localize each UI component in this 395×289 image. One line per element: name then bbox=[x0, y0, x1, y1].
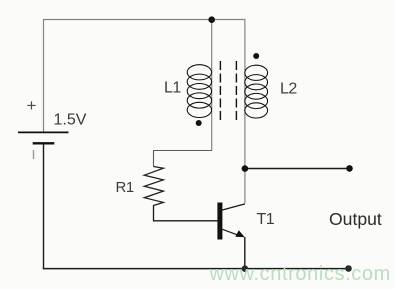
wire emitter lead bbox=[244, 237, 246, 269]
wire R1 to base bbox=[154, 205, 218, 221]
L1 polarity dot bbox=[196, 120, 202, 126]
wire left rail upper (battery positive) bbox=[43, 20, 45, 133]
svg-text:R1: R1 bbox=[116, 179, 134, 196]
battery minus tick bbox=[33, 150, 35, 159]
svg-text:L2: L2 bbox=[280, 81, 297, 98]
node junction collector-output bbox=[242, 165, 249, 172]
output terminal bottom bbox=[345, 265, 352, 272]
resistor R1 bbox=[144, 167, 163, 206]
svg-text:+: + bbox=[27, 96, 37, 115]
transistor T1 bbox=[217, 203, 245, 240]
node junction top bbox=[208, 16, 215, 23]
inductor L2 bbox=[245, 65, 268, 118]
svg-text:T1: T1 bbox=[257, 211, 275, 228]
wire bottom rail bbox=[43, 268, 349, 270]
battery B1 negative plate bbox=[33, 142, 55, 144]
svg-text:1.5V: 1.5V bbox=[54, 112, 87, 129]
wire left rail lower (battery negative) bbox=[43, 143, 45, 269]
wire L1-to-R1 connector bbox=[154, 151, 212, 167]
battery B1 positive plate bbox=[18, 131, 69, 133]
L2 polarity dot bbox=[253, 53, 259, 59]
transformer core bbox=[220, 61, 236, 121]
wire right rail (L2 winding lead) bbox=[244, 19, 246, 203]
node junction emitter-bottom bbox=[242, 265, 249, 272]
inductor L1 bbox=[187, 65, 211, 118]
svg-text:L1: L1 bbox=[164, 80, 181, 97]
output terminal top bbox=[346, 165, 353, 172]
svg-text:Output: Output bbox=[329, 209, 382, 229]
svg-text:www.cntronics.com: www.cntronics.com bbox=[209, 263, 391, 285]
wire output top bbox=[245, 168, 350, 170]
wire top rail bbox=[43, 19, 245, 21]
wire L1 winding lead bbox=[211, 20, 213, 151]
